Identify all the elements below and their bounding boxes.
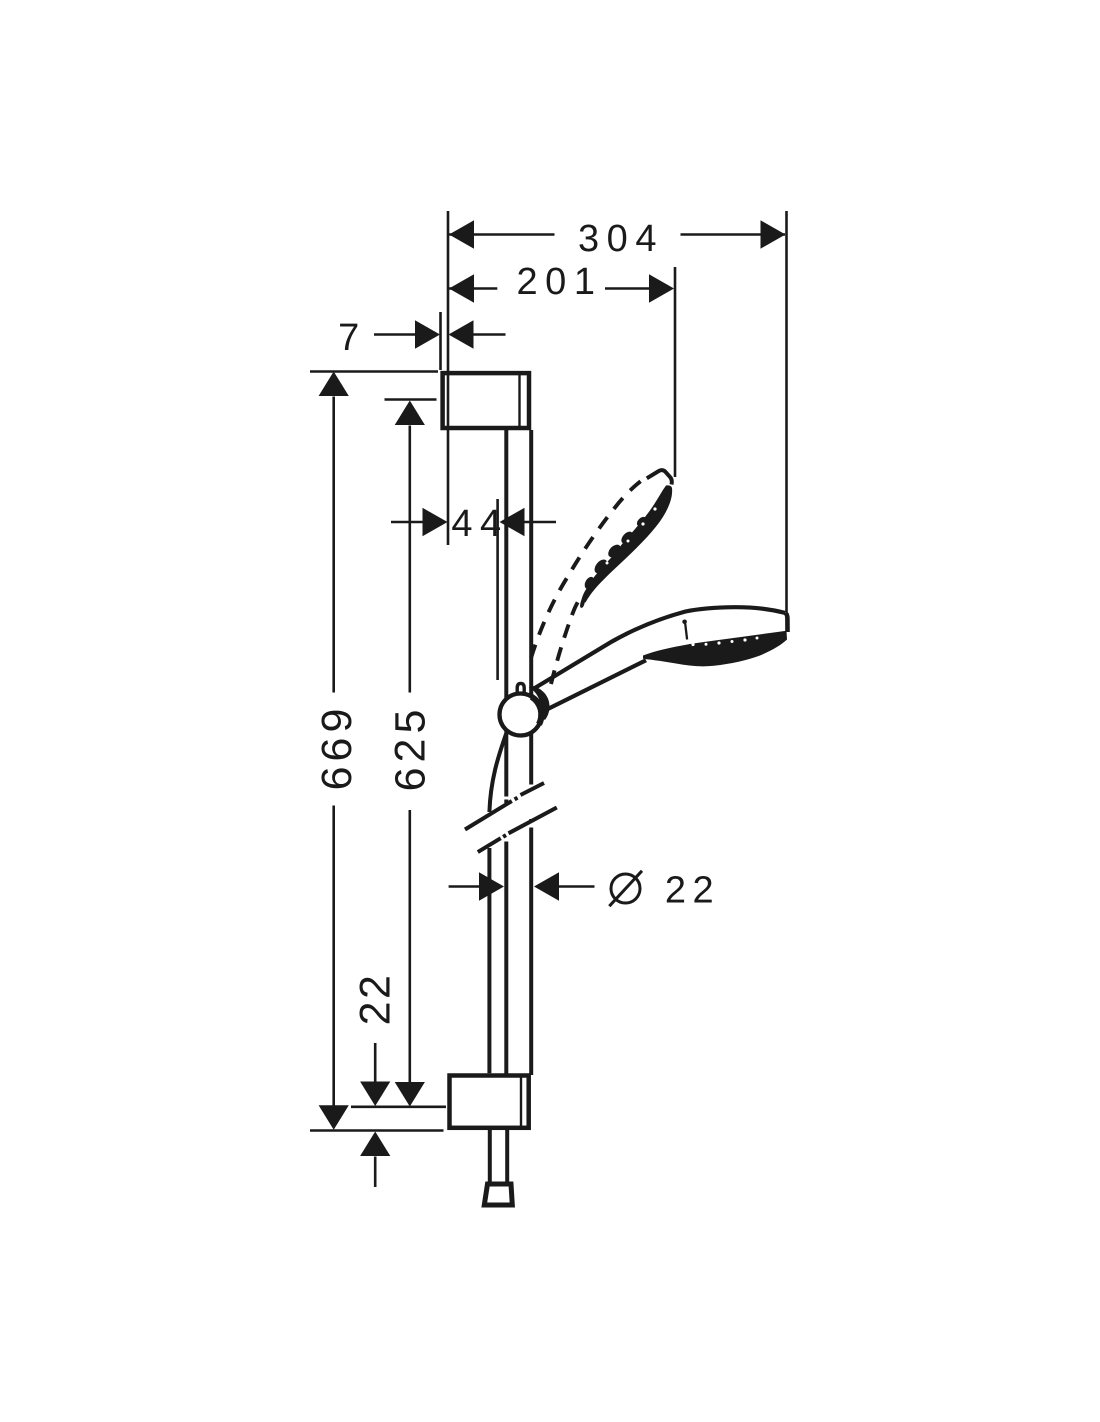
dimension diameter 22 [449,870,721,912]
holder handle butt fillet [529,686,550,721]
shower hose upper curve [489,734,506,812]
svg-text:7: 7 [338,317,367,359]
svg-text:669: 669 [313,704,361,791]
shower hose mid segment [487,848,491,1073]
bottom wall bracket [450,1076,529,1128]
dashed hand shower left outline [531,481,641,658]
solid hand shower end cap [786,613,788,632]
solid hand shower spray face [643,631,787,667]
dimension 669 [310,372,438,1130]
holder slider knob [517,683,524,697]
svg-text:625: 625 [387,705,435,792]
extension line 304 [785,211,788,612]
extension line left of top bracket (7 dim) [439,312,442,370]
svg-text:201: 201 [517,261,603,303]
rail bar left edge [504,430,508,1075]
dimension 304 [449,218,786,260]
top wall bracket [443,372,529,429]
dimension 625 [385,400,437,1107]
dimension 7 [338,317,505,359]
dashed spray face white specks [606,507,657,564]
holder slider circle [500,694,542,736]
dimension 201 [449,261,674,303]
extension line 201 [674,267,677,477]
svg-text:22: 22 [352,973,400,1026]
dimension 44 [391,503,556,545]
dimension 22 vertical (bottom bracket) [310,973,446,1187]
break mark upper diagonal [465,783,544,830]
rail bar right edge [529,430,533,1075]
solid hand shower joint tick [682,620,687,625]
dashed hand shower end cap [647,470,672,484]
solid hand shower handle bottom edge [543,660,647,711]
solid spray face white specks [691,637,758,647]
shower hose below bottom bracket [490,1130,507,1182]
svg-text:304: 304 [578,218,664,260]
extension line rail axis top [447,211,450,545]
svg-text:44: 44 [451,503,508,545]
hose connector nub [484,1184,512,1205]
extension line slider (44 dim) [496,499,499,680]
holder thick right rim [530,694,545,726]
solid hand shower handle top edge [534,607,786,688]
svg-text:22: 22 [665,870,720,912]
dashed hand shower spray face [580,485,672,608]
dashed hand shower right outline [551,597,582,685]
break mark lower diagonal [478,808,557,853]
